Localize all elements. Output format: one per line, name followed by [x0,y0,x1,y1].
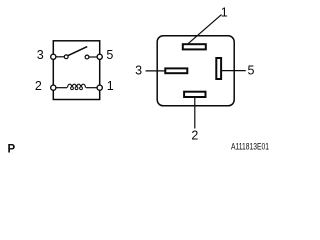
svg-text:1: 1 [221,6,228,20]
leader line to label 1 [188,15,221,44]
svg-text:3: 3 [135,64,142,78]
svg-text:3: 3 [37,48,44,62]
leader line to label 5 [222,70,246,72]
page marker P [8,144,16,156]
switch contact left [64,55,68,59]
terminal pin 5 [97,54,102,59]
switch contact right [85,55,89,59]
terminal slot 3 (left) [165,68,187,73]
svg-text:2: 2 [35,79,42,93]
label pin 3 [37,48,44,62]
wire right contact to pin5 [89,56,98,58]
terminal pin 1 [97,85,102,90]
svg-text:P: P [8,144,16,156]
svg-text:A111813E01: A111813E01 [231,142,269,152]
label pin 1 [107,79,114,93]
leader line to label 2 [194,98,196,129]
svg-text:1: 1 [107,79,114,93]
svg-text:5: 5 [248,64,255,78]
wire coil to pin1 [86,87,98,89]
wire pin2 to coil [56,87,68,89]
label pin 5 [106,48,113,62]
label terminal 5 [248,64,255,78]
coil [68,84,86,89]
terminal slot 2 (bottom) [184,92,205,97]
label pin 2 [35,79,42,93]
terminal slot 5 (right) [216,58,221,79]
label terminal 2 [191,128,198,142]
leader line to label 3 [146,70,166,72]
label terminal 1 [221,6,228,20]
switch blade [68,47,87,56]
connector body [157,36,234,106]
figure code A111813E01 [231,142,269,152]
relay box outline [53,41,99,100]
svg-text:5: 5 [106,48,113,62]
terminal pin 3 [51,54,56,59]
label terminal 3 [135,64,142,78]
terminal slot 1 (top) [183,44,206,49]
svg-text:2: 2 [191,128,198,142]
wire pin3 to left contact [56,56,65,58]
terminal pin 2 [51,85,56,90]
